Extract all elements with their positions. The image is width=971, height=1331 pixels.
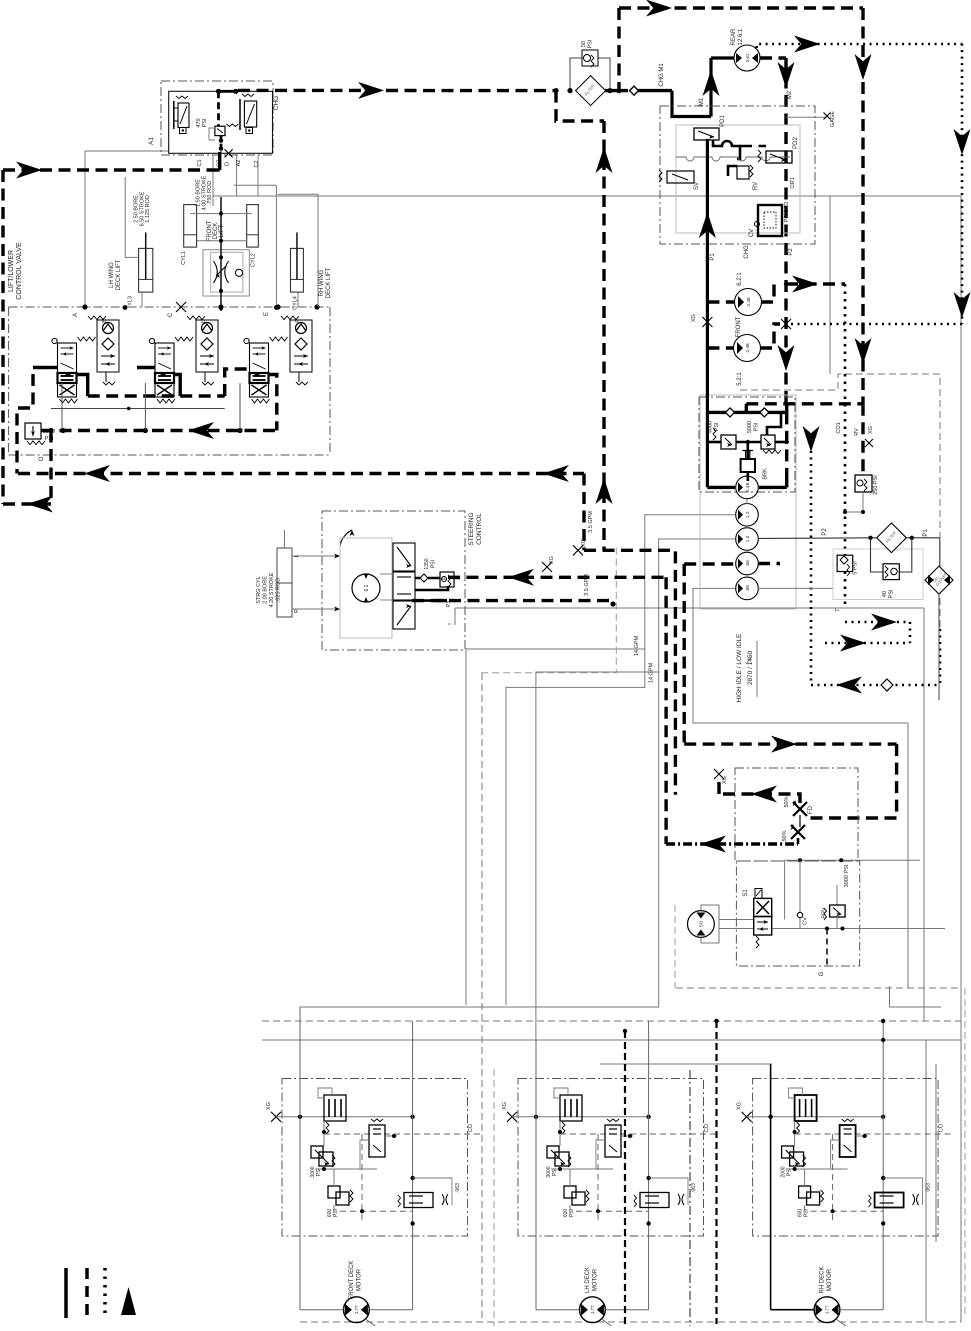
svg-text:M1: M1	[699, 97, 705, 106]
svg-text:A1: A1	[148, 137, 155, 145]
svg-text:1350: 1350	[424, 558, 430, 569]
svg-text:50: 50	[581, 41, 587, 47]
svg-text:PSI: PSI	[588, 39, 594, 48]
svg-text:E: E	[264, 312, 270, 316]
svg-text:D: D	[225, 162, 231, 166]
svg-text:PSI: PSI	[753, 422, 759, 431]
svg-text:CHG: CHG	[273, 96, 280, 110]
svg-text:PD2: PD2	[793, 137, 799, 149]
svg-text:CV: CV	[803, 917, 809, 925]
svg-text:1.77: 1.77	[590, 1305, 595, 1314]
svg-text:MOTOR: MOTOR	[827, 1268, 833, 1291]
svg-text:CONTROL VALVE: CONTROL VALVE	[16, 242, 23, 300]
svg-text:2.00 BORE: 2.00 BORE	[263, 576, 269, 604]
svg-text:XG: XG	[581, 539, 587, 547]
svg-text:2870 / 1450: 2870 / 1450	[747, 650, 754, 685]
svg-text:P2: P2	[822, 528, 828, 536]
svg-text:C1: C1	[197, 159, 203, 166]
svg-text:4.20 STROKE: 4.20 STROKE	[269, 572, 275, 607]
svg-text:2.48: 2.48	[745, 482, 751, 492]
svg-text:CO: CO	[704, 1123, 710, 1132]
svg-text:SO: SO	[699, 920, 704, 927]
svg-text:A: A	[73, 313, 79, 317]
svg-text:YL3: YL3	[127, 296, 133, 306]
svg-text:CO: CO	[468, 1123, 474, 1132]
svg-text:OR1: OR1	[790, 177, 796, 188]
svg-text:O: O	[39, 456, 45, 461]
svg-text:2.61: 2.61	[745, 53, 750, 62]
svg-text:STRG CYL: STRG CYL	[256, 576, 262, 604]
svg-text:PSI: PSI	[889, 589, 895, 598]
svg-text:LIFT/LOWER: LIFT/LOWER	[8, 250, 15, 292]
svg-text:2.48: 2.48	[745, 343, 751, 353]
svg-text:C: C	[168, 312, 174, 317]
svg-text:STEERING: STEERING	[468, 512, 475, 545]
svg-text:XG: XG	[691, 314, 697, 322]
svg-text:G: G	[819, 971, 825, 976]
svg-text:L: L	[294, 554, 300, 557]
svg-text:2.48: 2.48	[746, 297, 752, 307]
svg-text:CHG M1: CHG M1	[659, 63, 665, 87]
svg-text:P1: P1	[710, 253, 716, 261]
svg-text:C2: C2	[254, 160, 260, 167]
svg-text:40: 40	[882, 591, 888, 597]
svg-text:.56: .56	[745, 560, 751, 567]
svg-text:XG: XG	[868, 426, 874, 434]
svg-text:1.125 ROD: 1.125 ROD	[145, 195, 151, 223]
svg-text:PR OR2: PR OR2	[784, 202, 790, 222]
svg-text:XG: XG	[266, 1102, 272, 1110]
svg-text:XG: XG	[502, 1102, 508, 1110]
svg-text:RV: RV	[753, 182, 759, 190]
svg-text:CV: CV	[749, 229, 755, 237]
svg-text:REAR: REAR	[731, 28, 737, 45]
svg-text:50%: 50%	[782, 830, 788, 841]
svg-text:.063: .063	[691, 1183, 697, 1193]
svg-text:BRK: BRK	[763, 468, 769, 480]
svg-text:GAGE: GAGE	[830, 111, 836, 127]
svg-text:LIFT: LIFT	[219, 225, 225, 238]
svg-text:.063: .063	[926, 1183, 932, 1193]
svg-text:SV: SV	[694, 182, 700, 190]
svg-text:.063: .063	[455, 1183, 461, 1193]
svg-text:M2: M2	[787, 90, 793, 99]
svg-text:CO: CO	[939, 1123, 945, 1132]
svg-text:470: 470	[196, 118, 202, 127]
svg-text:3000 PSI: 3000 PSI	[844, 864, 850, 887]
svg-text:HIGH IDLE / LOW IDLE: HIGH IDLE / LOW IDLE	[736, 633, 743, 703]
svg-text:P1: P1	[923, 529, 929, 537]
svg-text:S1: S1	[743, 889, 749, 897]
svg-text:LH WING: LH WING	[109, 262, 115, 288]
svg-text:5000: 5000	[747, 421, 753, 433]
svg-text:1.77: 1.77	[354, 1305, 359, 1314]
svg-text:1.2: 1.2	[745, 511, 751, 518]
svg-text:.56: .56	[745, 585, 751, 592]
svg-text:A2: A2	[236, 160, 242, 167]
svg-text:250 PSI: 250 PSI	[873, 475, 879, 495]
svg-text:FD: FD	[808, 805, 814, 814]
svg-text:RH DECK: RH DECK	[820, 1266, 826, 1293]
svg-text:6.2:1: 6.2:1	[737, 272, 743, 286]
svg-text:CONTROL: CONTROL	[476, 513, 483, 545]
svg-text:3.5 GPM: 3.5 GPM	[588, 511, 594, 533]
svg-text:14 GPM: 14 GPM	[634, 636, 640, 657]
svg-text:R: R	[294, 609, 300, 613]
svg-text:MOTOR: MOTOR	[357, 1268, 363, 1291]
svg-text:5.2:1: 5.2:1	[737, 372, 743, 386]
svg-text:MOTOR: MOTOR	[593, 1268, 599, 1291]
svg-text:FRONT DECK: FRONT DECK	[349, 1261, 355, 1300]
svg-text:XG: XG	[722, 776, 728, 784]
svg-text:LH DECK: LH DECK	[585, 1267, 591, 1293]
svg-text:T: T	[448, 622, 454, 625]
svg-text:.750 ROD: .750 ROD	[207, 181, 213, 205]
svg-text:FRONT: FRONT	[736, 316, 742, 337]
svg-text:1.77: 1.77	[825, 1305, 830, 1314]
svg-text:1.2: 1.2	[745, 535, 751, 542]
svg-text:PSI: PSI	[431, 560, 437, 568]
svg-text:P2: P2	[788, 248, 794, 256]
svg-text:CYL2: CYL2	[251, 253, 257, 267]
svg-text:CYL4: CYL4	[293, 296, 299, 310]
svg-text:50%: 50%	[784, 796, 790, 807]
svg-text:CHG: CHG	[744, 245, 750, 259]
svg-text:DECK LIFT: DECK LIFT	[326, 267, 332, 298]
svg-text:DECK LIFT: DECK LIFT	[116, 259, 122, 290]
svg-text:PSI: PSI	[202, 118, 208, 127]
svg-text:12.6:1: 12.6:1	[738, 28, 744, 45]
svg-text:XG: XG	[737, 1102, 743, 1110]
svg-text:5 PSI: 5 PSI	[853, 561, 859, 575]
svg-text:RH WING: RH WING	[319, 269, 325, 296]
svg-text:CYL1: CYL1	[181, 251, 187, 265]
svg-text:6.1: 6.1	[364, 584, 370, 591]
svg-text:CO1: CO1	[836, 422, 842, 433]
svg-text:3.5 GPM: 3.5 GPM	[584, 574, 590, 596]
svg-text:XG: XG	[549, 556, 555, 564]
svg-text:PRV: PRV	[822, 907, 828, 919]
svg-text:.625 ROD: .625 ROD	[276, 578, 282, 602]
svg-text:RV: RV	[854, 428, 860, 436]
svg-text:PSI: PSI	[714, 422, 720, 431]
svg-text:PD1: PD1	[720, 115, 726, 127]
svg-text:14 GPM: 14 GPM	[649, 663, 655, 684]
